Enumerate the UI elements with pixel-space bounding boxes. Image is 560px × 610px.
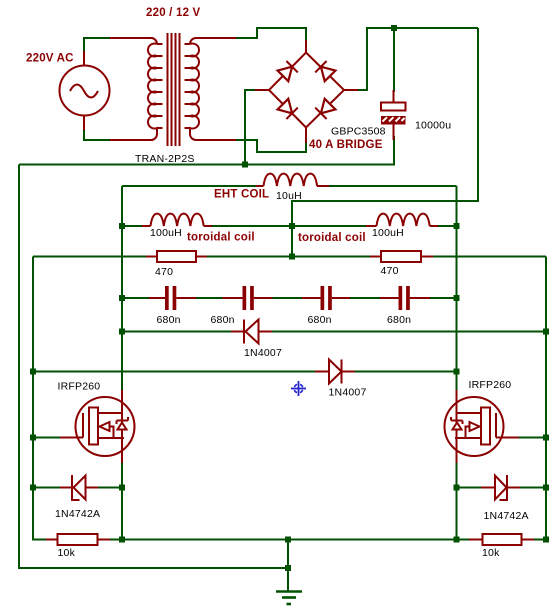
wire: cross coupling rail y371.5 [33,371,317,373]
svg-text:1N4742A: 1N4742A [55,508,100,520]
MOSFET Q2 IRFP260 right [445,390,520,463]
svg-text:40 A BRIDGE: 40 A BRIDGE [309,139,383,151]
wire: toroid rail y226 [122,225,144,227]
resistor R2 470 right [370,251,433,262]
svg-text:10k: 10k [58,547,76,559]
svg-text:680n: 680n [157,314,181,326]
wire: DC+ right drop to toroid center feed [292,28,478,257]
MOSFET Q1 IRFP260 left [60,390,135,463]
resistor R4 10k right [469,534,534,545]
svg-text:10k: 10k [482,547,500,559]
wire: left edge rail down to bottom ground rail [19,165,288,569]
wire: ground stub [287,540,289,592]
capacitor C4 680n [380,286,430,310]
wire: cross coupling rail y331.5 [122,331,234,333]
wire: right zener row y487.5 [457,487,484,489]
capacitor C2 680n [223,286,273,310]
junction at right drain / toroid rail [454,223,460,229]
capacitor C1 680n [149,286,196,310]
svg-text:470: 470 [155,266,173,278]
junction at left drain / capacitor chain [119,295,125,301]
junction at left source / zener row [119,485,125,491]
inductor L2 toroidal coil 100uH left [142,214,212,226]
ground symbol [276,592,302,605]
junction at right gate / zener row [543,485,549,491]
diode D1 1N4007 pointing left [231,320,272,344]
junction at +12V feed / toroid rail [289,223,295,229]
junction at left drain / coupling rail 1 [119,329,125,335]
junction at right drain / coupling rail 2 [454,369,460,375]
resistor R1 470 left [146,251,207,262]
wire: gate bias rail y256.5 [33,256,151,258]
wire: bridge right vertex up to DC+ top rail [350,28,478,90]
transformer TR1 secondary winding [185,38,237,140]
wire: left gate lead wire [33,437,62,439]
svg-text:100uH: 100uH [150,227,182,239]
wire: right gate lead wire [518,437,546,439]
zener D3 1N4742A left [60,475,98,500]
svg-text:toroidal coil: toroidal coil [298,232,366,244]
bridge rectifier GBPC3508 diamond [255,40,358,143]
wire: left zener row y487.5 [33,487,62,489]
bridge diode upper-left [278,61,298,81]
resistor R3 10k left [46,534,110,545]
wire: source/10k rail y539.5 [108,539,470,541]
electrolytic capacitor 10000u [381,90,406,140]
svg-text:1N4742A: 1N4742A [484,510,529,522]
wire: AC source top to transformer primary top [84,38,153,66]
transformer TR1 core [168,33,180,146]
junction at capacitor top / DC+ rail [391,25,397,31]
junction at right gate / coupling rail 1 [543,329,549,335]
junction at right source / zener row [454,485,460,491]
capacitor C3 680n [302,286,350,310]
svg-text:1N4007: 1N4007 [329,387,367,399]
origin marker (blue) [291,381,306,396]
AC source V1 body [60,66,110,116]
junction at left drain / toroid rail [119,223,125,229]
zener D4 1N4742A right [481,475,520,500]
wire: left gate vertical x33 [33,257,51,540]
wire: EHT coil rail y186 [122,185,258,187]
junction at left gate / coupling rail 2 [30,369,36,375]
AC source V1 pins [84,38,153,140]
svg-text:TRAN-2P2S: TRAN-2P2S [135,153,195,165]
junction at ground drop / 10k rail [285,537,291,543]
svg-text:EHT COIL: EHT COIL [214,189,269,201]
junction at ground drop / bottom rail [285,565,291,571]
svg-text:10uH: 10uH [276,190,302,202]
junction at left gate / zener row [30,485,36,491]
svg-text:IRFP260: IRFP260 [58,381,101,393]
junction at left gate lead [30,435,36,441]
junction at left source / 10k rail [119,537,125,543]
junction at right drain / capacitor chain [454,295,460,301]
inductor L3 toroidal coil 100uH right [366,214,438,226]
svg-text:680n: 680n [308,314,332,326]
inductor L1 EHT COIL 10uH [256,174,329,186]
svg-text:1N4007: 1N4007 [244,347,282,359]
svg-text:GBPC3508: GBPC3508 [331,126,386,138]
junction at right source / 10k rail [454,537,460,543]
svg-text:220 / 12 V: 220 / 12 V [146,7,201,19]
wire: right drain vertical x456.5 [456,186,458,392]
bridge diode upper-right [315,61,335,81]
svg-text:10000u: 10000u [415,120,451,132]
svg-text:IRFP260: IRFP260 [469,379,512,391]
bridge diode lower-left [278,99,298,119]
wire: AC source bottom to transformer primary bottom [84,115,153,140]
bridge diode lower-right [315,99,335,119]
svg-text:680n: 680n [211,314,235,326]
wire: right gate vertical x546 [527,257,546,540]
svg-text:220V AC: 220V AC [26,53,74,65]
wire: capacitor bottom to DC- rail [19,136,394,165]
wire: bridge left vertex down to DC- rail [245,90,262,165]
transformer TR1 primary winding [148,38,163,140]
wire: capacitor branch from top rail [393,28,395,92]
svg-text:100uH: 100uH [372,227,404,239]
junction at right gate lead [543,435,549,441]
svg-text:toroidal coil: toroidal coil [187,232,255,244]
junction at toroid rail / gate bias rail [289,254,295,260]
wire: secondary top to bridge top vertex [196,28,306,44]
wire: secondary bottom to bridge bottom vertex [196,140,306,152]
wire: capacitor chain rail y298 [122,297,151,299]
diode D2 1N4007 pointing right [315,360,355,384]
junction at right gate / 10k rail [543,537,549,543]
wire: left drain vertical x122 [121,186,123,392]
svg-text:680n: 680n [387,314,411,326]
junction at bridge AC2 / DC- rail [242,162,248,168]
svg-text:470: 470 [381,265,399,277]
